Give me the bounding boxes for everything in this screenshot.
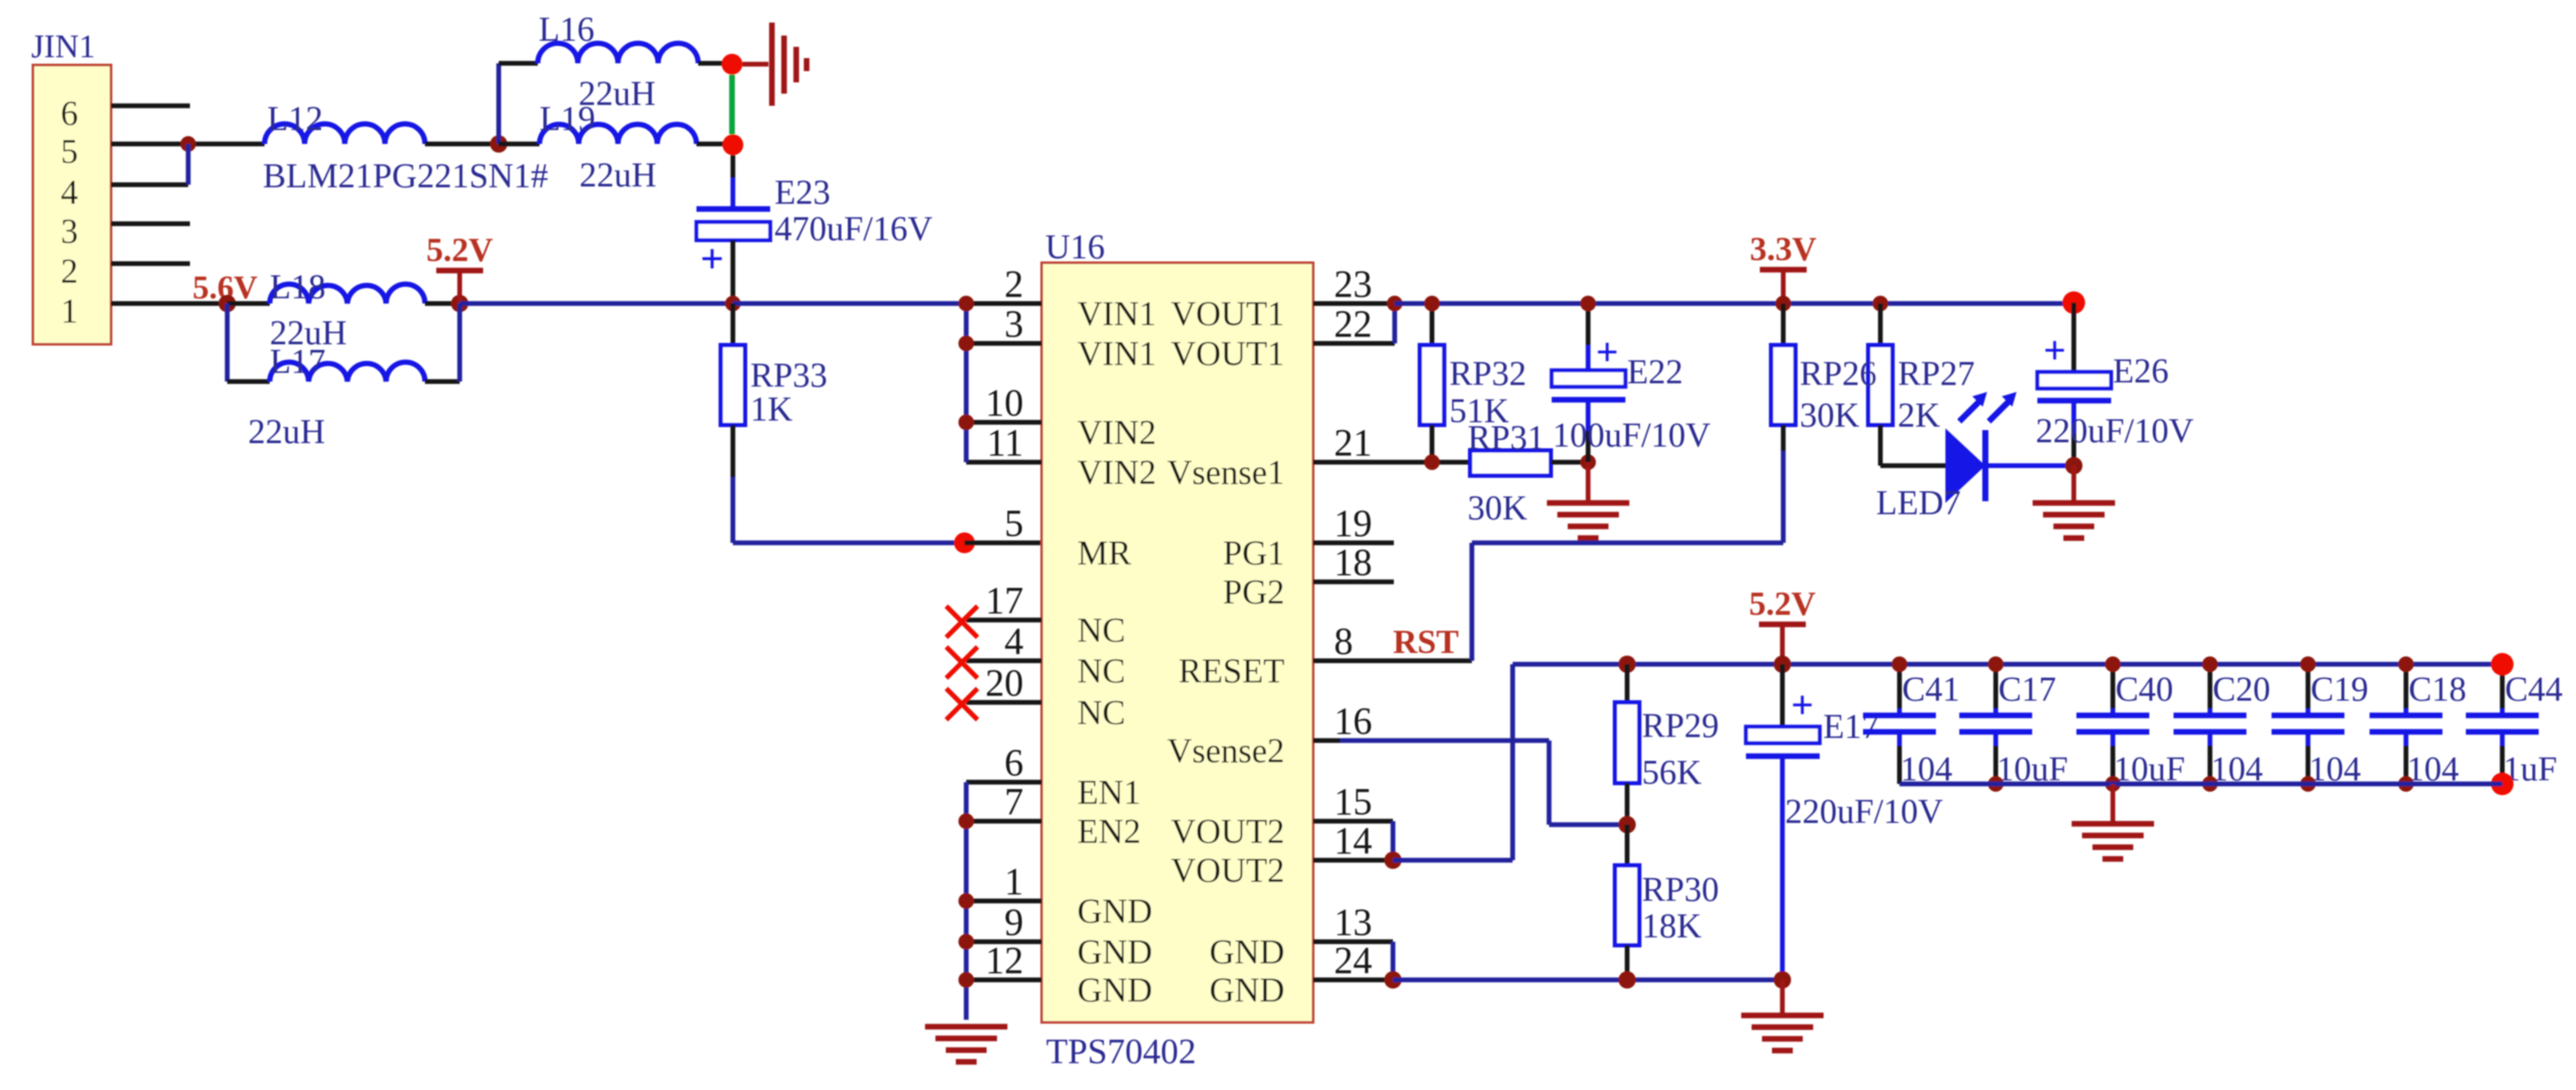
capacitor C41 — [1863, 664, 1960, 788]
svg-text:RP32: RP32 — [1449, 354, 1527, 393]
svg-text:2: 2 — [1004, 263, 1023, 305]
wire RP26 to RST net — [1781, 425, 1786, 543]
node C40 top — [2105, 656, 2121, 672]
wire 5.6V to L18 — [227, 301, 270, 306]
svg-text:11: 11 — [987, 421, 1023, 464]
wire U16 pin 3 — [966, 341, 1042, 346]
svg-text:9: 9 — [1004, 901, 1023, 943]
wire Vsense2 jog — [1549, 741, 1627, 825]
svg-text:C44: C44 — [2505, 669, 2563, 708]
wire U16 pin 6 — [966, 780, 1042, 785]
wire MR to U16 pin 5 — [964, 540, 1042, 545]
svg-text:22: 22 — [1334, 303, 1372, 345]
U16 pin names — [1077, 294, 1285, 1009]
svg-text:21: 21 — [1334, 421, 1372, 464]
capacitor E22 — [1552, 296, 1710, 462]
node C17 top — [1988, 656, 2004, 672]
wire U16 pin 11 — [966, 460, 1042, 465]
svg-text:5: 5 — [61, 132, 78, 171]
node C17 bottom — [1988, 776, 2004, 792]
svg-text:RP27: RP27 — [1898, 354, 1975, 393]
wire 5.2V rail — [1513, 662, 2502, 667]
svg-text:NC: NC — [1077, 610, 1126, 649]
svg-text:19: 19 — [1334, 502, 1372, 545]
wire U16 pin 1 — [966, 898, 1042, 904]
svg-text:PG1: PG1 — [1223, 533, 1285, 572]
svg-text:L18: L18 — [270, 267, 325, 306]
svg-text:NC: NC — [1077, 693, 1126, 732]
node C40 bottom — [2105, 776, 2121, 792]
svg-text:+: + — [700, 236, 723, 282]
svg-text:5.2V: 5.2V — [1749, 585, 1816, 623]
wire E23 to rail — [730, 240, 736, 304]
wire cap bank bottom rail — [1899, 781, 2502, 786]
wire RST to RP26 — [1472, 540, 1783, 545]
svg-text:U16: U16 — [1045, 227, 1105, 266]
svg-text:1: 1 — [1004, 860, 1023, 903]
capacitor E26 — [2036, 303, 2194, 466]
wire pin13 riser — [1384, 942, 1402, 989]
svg-text:RP30: RP30 — [1642, 870, 1719, 909]
wire L17 branch left — [225, 304, 230, 382]
resistor RP26 labels — [1800, 354, 1877, 434]
svg-text:Vsense1: Vsense1 — [1167, 453, 1285, 492]
wire branch vertical — [496, 63, 501, 144]
node 5.2V — [451, 295, 468, 312]
inductor L18 — [270, 267, 425, 352]
wire U16 pin 13 — [1313, 939, 1393, 944]
svg-text:+: + — [2043, 328, 2066, 372]
wire U16 pin 12 — [966, 977, 1042, 982]
svg-text:22uH: 22uH — [579, 155, 657, 194]
svg-text:Vsense2: Vsense2 — [1167, 731, 1285, 770]
capacitor C18 — [2370, 664, 2467, 788]
svg-text:RESET: RESET — [1179, 651, 1285, 690]
wire U16 pin 7 — [966, 819, 1042, 824]
wire 3.3V rail — [1395, 301, 2074, 306]
svg-text:GND: GND — [1209, 970, 1285, 1009]
capacitor E23 — [696, 155, 932, 282]
resistor RP32 — [1420, 296, 1527, 470]
svg-text:5: 5 — [1004, 502, 1023, 545]
svg-text:4: 4 — [61, 173, 78, 212]
wire L18 to 5.2V node — [425, 301, 460, 306]
node C20 top — [2202, 656, 2218, 672]
capacitor C20 — [2174, 664, 2271, 788]
svg-text:RP31: RP31 — [1468, 418, 1545, 457]
svg-text:VIN2: VIN2 — [1077, 453, 1156, 492]
wire green tie — [729, 75, 736, 134]
ground below E22 — [1547, 462, 1630, 538]
svg-text:RP29: RP29 — [1642, 706, 1719, 745]
op-amp U16 regulator TPS70402 box — [1042, 227, 1313, 1071]
svg-text:4: 4 — [1004, 620, 1023, 662]
svg-text:470uF/16V: 470uF/16V — [775, 209, 932, 248]
svg-text:3: 3 — [1004, 303, 1023, 345]
svg-text:18K: 18K — [1642, 906, 1702, 945]
svg-text:MR: MR — [1077, 533, 1132, 572]
svg-text:EN1: EN1 — [1077, 773, 1141, 812]
resistor RP33 — [721, 304, 827, 543]
wire EN/GND bus — [958, 782, 974, 1020]
wire U16 pin 20 NC stub — [966, 700, 1042, 705]
wire U16 pin 4 NC stub — [966, 658, 1042, 663]
svg-text:VIN1: VIN1 — [1077, 294, 1156, 333]
ground U16 GND pins — [925, 1027, 1008, 1062]
net label 5.6V — [193, 270, 258, 306]
wire RP33 to MR — [733, 540, 964, 545]
capacitor C40 — [2076, 664, 2185, 788]
svg-text:10: 10 — [985, 382, 1023, 424]
U16 pin numbers — [985, 263, 1372, 982]
wire U16 pin 24 — [1313, 977, 1393, 982]
svg-text:EN2: EN2 — [1077, 812, 1141, 851]
svg-text:NC: NC — [1077, 651, 1126, 690]
inductor L17 — [248, 342, 425, 451]
wire L12 to branch node — [425, 141, 499, 147]
svg-text:22uH: 22uH — [248, 412, 325, 451]
ground below E26 — [2033, 466, 2115, 538]
svg-text:30K: 30K — [1800, 395, 1860, 434]
node E26 bottom — [2065, 457, 2082, 474]
wire U16 pin 21 to RP31 — [1313, 460, 1470, 465]
svg-text:VOUT2: VOUT2 — [1171, 851, 1285, 890]
wire JIN1 pin 1 to 5.6V node — [111, 301, 227, 306]
power 5.2V right — [1749, 585, 1816, 664]
wire U16 pin 19 stub — [1313, 540, 1394, 545]
wire U16 pin 9 — [966, 939, 1042, 944]
wire RST riser — [1469, 543, 1474, 661]
inductor L19 — [539, 99, 696, 194]
wire pin15 riser — [1384, 821, 1402, 869]
svg-text:3: 3 — [61, 212, 78, 251]
svg-text:24: 24 — [1334, 939, 1372, 982]
node E26 top rail end — [2063, 291, 2085, 314]
svg-text:2K: 2K — [1898, 395, 1940, 434]
wire 5.2V rail to E23 node — [460, 301, 733, 306]
wire U16 pin 23 — [1313, 301, 1395, 306]
svg-text:6: 6 — [1004, 741, 1023, 784]
net label RST — [1393, 623, 1459, 661]
wire L19 to E23 node — [696, 141, 733, 147]
wire LED7 to E26 node — [1985, 463, 2074, 468]
no-connect X pin 20 — [946, 689, 977, 720]
ground below E17 — [1742, 980, 1824, 1051]
svg-text:VIN2: VIN2 — [1077, 413, 1156, 452]
svg-text:E23: E23 — [775, 173, 830, 212]
svg-text:8: 8 — [1334, 620, 1353, 662]
svg-text:C18: C18 — [2409, 669, 2467, 708]
wire U16 pin 8 RESET — [1313, 658, 1472, 663]
svg-text:15: 15 — [1334, 780, 1372, 823]
wire JIN1 pin 5 to L12 — [111, 141, 265, 147]
inductor L16 — [538, 10, 698, 113]
node C44 top — [2491, 653, 2514, 676]
svg-text:E22: E22 — [1627, 352, 1683, 391]
svg-text:16: 16 — [1334, 700, 1372, 742]
svg-text:VIN1: VIN1 — [1077, 334, 1156, 373]
svg-text:L19: L19 — [539, 99, 595, 138]
capacitor C44 — [2466, 664, 2563, 788]
wire JIN1 pin 2 stub — [111, 261, 190, 266]
svg-text:30K: 30K — [1468, 488, 1527, 527]
resistor RP27 — [1868, 296, 1975, 466]
svg-text:23: 23 — [1334, 263, 1372, 305]
capacitor C17 — [1959, 664, 2068, 788]
svg-text:TPS70402: TPS70402 — [1046, 1031, 1196, 1071]
node C20 bottom — [2202, 776, 2218, 792]
wire U16 pin 22 — [1313, 341, 1395, 346]
svg-text:17: 17 — [985, 579, 1023, 622]
ground cap bank — [2072, 784, 2154, 859]
node B E23 top — [722, 134, 743, 155]
node E17 bottom — [1774, 971, 1791, 989]
svg-text:1: 1 — [61, 291, 78, 330]
resistor RP31 — [1468, 418, 1551, 527]
svg-text:220uF/10V: 220uF/10V — [2036, 411, 2194, 450]
capacitor C19 — [2272, 664, 2369, 788]
svg-text:LED7: LED7 — [1876, 483, 1961, 522]
wire JIN1 pin 3 stub — [111, 221, 190, 226]
svg-text:13: 13 — [1334, 901, 1372, 943]
wire U16 pin 18 stub — [1313, 579, 1394, 584]
node C41 top — [1892, 656, 1907, 672]
node C44 bottom — [2491, 773, 2514, 795]
svg-text:5.2V: 5.2V — [427, 232, 494, 269]
svg-text:L17: L17 — [270, 342, 325, 381]
svg-text:C40: C40 — [2115, 669, 2174, 708]
wire to L17 — [227, 379, 270, 384]
svg-text:GND: GND — [1077, 891, 1153, 930]
svg-text:7: 7 — [1004, 780, 1023, 823]
connector JIN1 — [31, 29, 111, 344]
node A top chassis junction — [722, 54, 742, 75]
wire GND rail — [1393, 977, 1782, 982]
resistor RP29 — [1615, 656, 1719, 833]
svg-text:56K: 56K — [1642, 753, 1702, 792]
wire U16 pin 14 — [1313, 858, 1393, 863]
wire U16 pin 17 NC stub — [966, 617, 1042, 623]
power 5.2V left — [427, 232, 494, 304]
wire L17 to right riser — [425, 379, 460, 384]
svg-text:+: + — [1791, 682, 1814, 727]
svg-text:PG2: PG2 — [1223, 572, 1285, 611]
svg-text:GND: GND — [1077, 932, 1153, 971]
svg-text:14: 14 — [1334, 819, 1372, 862]
svg-text:12: 12 — [985, 939, 1023, 982]
node 5.6V — [219, 295, 236, 312]
wire U16 pin 2 — [966, 301, 1042, 306]
wire to L19 — [499, 141, 539, 147]
svg-text:3.3V: 3.3V — [1750, 231, 1817, 268]
svg-text:220uF/10V: 220uF/10V — [1785, 792, 1943, 831]
wire rail E23 to U16 — [733, 301, 966, 306]
wire JIN1 pin 6 stub — [111, 103, 190, 108]
svg-text:2: 2 — [61, 251, 78, 290]
svg-text:20: 20 — [985, 662, 1023, 704]
wire JIN1 pin 4 stub — [111, 182, 188, 187]
svg-text:C20: C20 — [2213, 669, 2271, 708]
svg-text:JIN1: JIN1 — [31, 29, 95, 65]
resistor RP30 — [1615, 825, 1719, 989]
node C19 top — [2300, 656, 2316, 672]
node C18 top — [2398, 656, 2414, 672]
svg-text:E26: E26 — [2113, 351, 2168, 390]
wire VOUT2 to rail riser — [1393, 664, 1513, 860]
svg-text:C41: C41 — [1902, 669, 1960, 708]
capacitor E17 — [1746, 664, 1943, 980]
node C18 bottom — [2398, 776, 2414, 792]
node MR — [954, 532, 975, 553]
ground chassis earth — [742, 23, 807, 106]
svg-text:VOUT2: VOUT2 — [1171, 812, 1285, 851]
node branch L16/L19 — [490, 135, 507, 153]
node E17 top — [1774, 656, 1791, 673]
no-connect X pin 4 — [946, 647, 977, 678]
wire U16 pin 10 — [966, 420, 1042, 425]
svg-text:RST: RST — [1393, 623, 1459, 661]
svg-text:C17: C17 — [1998, 669, 2056, 708]
wire to L16 — [499, 61, 538, 66]
wire U16 pin 16 Vsense2 — [1313, 738, 1549, 743]
wire pin22 riser — [1387, 296, 1402, 343]
svg-text:L12: L12 — [267, 99, 323, 138]
svg-text:GND: GND — [1209, 932, 1285, 971]
wire RP31 to E22 node — [1551, 454, 1596, 470]
inductor L12 — [263, 99, 548, 195]
wire VIN bus — [958, 296, 974, 462]
svg-text:GND: GND — [1077, 970, 1153, 1009]
svg-text:C19: C19 — [2311, 669, 2369, 708]
svg-text:VOUT1: VOUT1 — [1171, 334, 1285, 373]
node C19 bottom — [2300, 776, 2316, 792]
diode LED7 — [1876, 392, 2017, 522]
svg-text:6: 6 — [61, 94, 78, 133]
resistor RP26 — [1771, 296, 1795, 425]
node pin5/pin4 tie — [180, 136, 196, 185]
svg-text:BLM21PG221SN1#: BLM21PG221SN1# — [263, 156, 548, 195]
wire L16 to chassis node — [698, 61, 732, 66]
svg-text:1K: 1K — [750, 389, 793, 428]
no-connect X pin 17 — [946, 606, 977, 637]
svg-text:+: + — [1596, 330, 1618, 374]
svg-text:18: 18 — [1334, 541, 1372, 584]
svg-text:L16: L16 — [539, 10, 594, 49]
svg-text:100uF/10V: 100uF/10V — [1553, 415, 1710, 454]
power 3.3V — [1750, 231, 1817, 304]
svg-text:VOUT1: VOUT1 — [1171, 294, 1285, 333]
svg-text:RP26: RP26 — [1800, 354, 1877, 393]
node E23 bottom on rail — [725, 296, 741, 311]
wire U16 pin 15 — [1313, 819, 1393, 824]
wire L17 branch right — [457, 304, 462, 382]
